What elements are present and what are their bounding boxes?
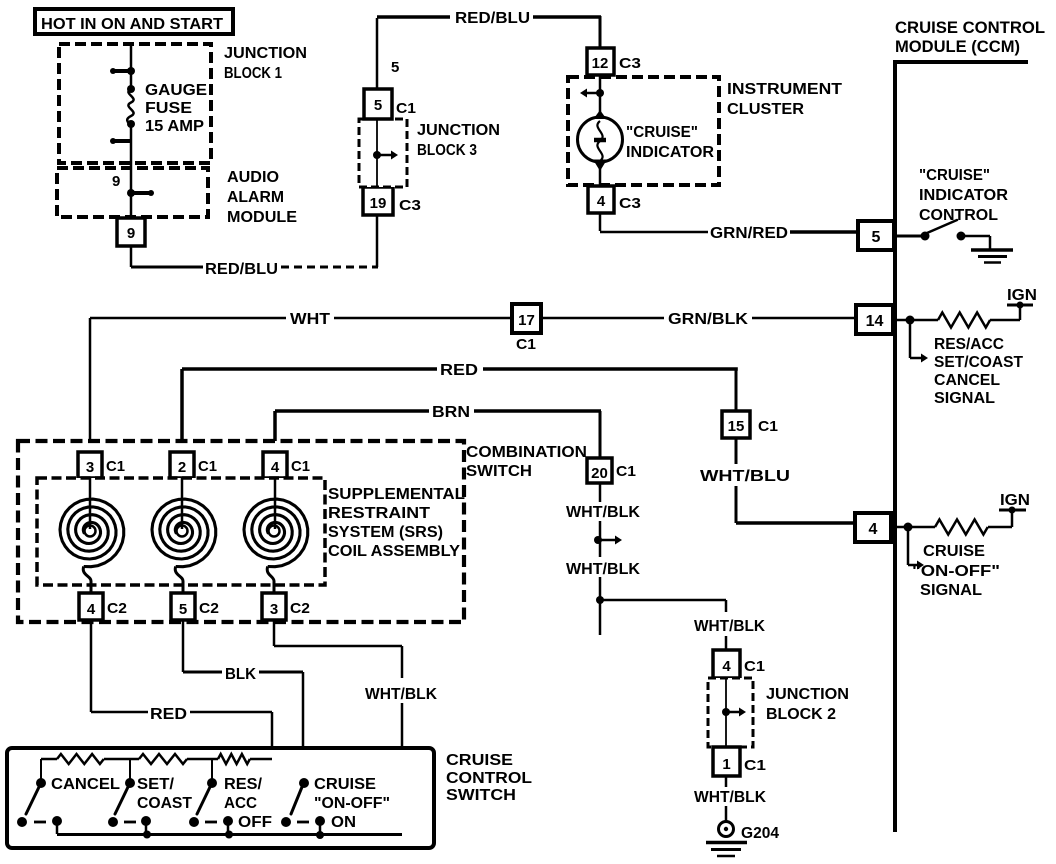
svg-text:MODULE (CCM): MODULE (CCM): [895, 37, 1020, 56]
connector pin 5 C2 box: [171, 593, 219, 620]
svg-text:FUSE: FUSE: [145, 100, 192, 117]
svg-text:BLOCK 2: BLOCK 2: [766, 706, 836, 723]
svg-text:C1: C1: [396, 100, 416, 117]
fuse F: GAUGE FUSE 15 AMP: [127, 82, 207, 135]
wire up from RED/BLU to pin 19: [376, 215, 379, 267]
svg-text:3: 3: [270, 601, 278, 618]
connector pin 4 C3 box: [588, 186, 641, 213]
CCM pin 14 box: [856, 305, 893, 334]
signal arrow CRUISE ON-OFF SIGNAL: [908, 527, 1000, 599]
wire resistor to IGN: [990, 319, 1020, 322]
svg-text:15 AMP: 15 AMP: [145, 118, 204, 135]
wire BLK from pin 5 C2 to cruise switch: [183, 620, 303, 779]
svg-text:GRN/BLK: GRN/BLK: [668, 311, 748, 328]
SRS clock spring coil 2: [152, 478, 216, 593]
svg-text:"CRUISE": "CRUISE": [919, 167, 990, 184]
svg-text:WHT/BLK: WHT/BLK: [365, 686, 437, 703]
svg-text:5: 5: [391, 59, 399, 76]
wire WHT/BLK lower: [566, 561, 640, 635]
svg-text:C3: C3: [399, 197, 421, 214]
svg-text:COAST: COAST: [137, 795, 192, 812]
svg-text:2: 2: [178, 459, 186, 476]
svg-text:5: 5: [374, 97, 382, 114]
wire RED from pin 4 C2 to cruise switch: [91, 620, 272, 759]
svg-text:WHT: WHT: [290, 311, 330, 328]
wire WHT/BLU to CCM pin 4: [700, 438, 855, 523]
svg-text:C3: C3: [619, 195, 641, 212]
node: branch to junction block 2: [596, 596, 604, 604]
connector pin 4 C1 box: [263, 452, 310, 478]
svg-text:INDICATOR: INDICATOR: [626, 144, 714, 161]
svg-text:C1: C1: [106, 458, 125, 475]
CCM pin 4 box: [855, 513, 891, 542]
svg-text:BLK: BLK: [225, 666, 256, 683]
wire internal junction block 3: [376, 119, 378, 187]
svg-text:BLOCK 1: BLOCK 1: [224, 65, 282, 82]
svg-text:C1: C1: [744, 757, 766, 774]
svg-text:CRUISE: CRUISE: [923, 543, 985, 560]
IGN feed at pin 4: [999, 492, 1030, 527]
CCM pin 5 box: [858, 221, 894, 250]
ground G204: [706, 822, 779, 857]
svg-text:WHT/BLU: WHT/BLU: [700, 468, 790, 485]
IGN feed at pin 14: [1007, 287, 1037, 320]
resistor R pullup ON-OFF: [935, 520, 988, 535]
svg-text:G204: G204: [741, 825, 779, 842]
node: cluster tap with left arrow: [580, 89, 604, 98]
svg-text:RES/: RES/: [224, 776, 263, 793]
svg-text:SIGNAL: SIGNAL: [934, 390, 995, 407]
svg-text:GAUGE: GAUGE: [145, 82, 207, 99]
SRS coil assembly (dashed box): [37, 478, 465, 585]
svg-text:1: 1: [722, 756, 730, 773]
node: pin 14 junction: [897, 316, 938, 325]
svg-text:12: 12: [592, 55, 609, 72]
wire WHT riser to pin 3: [89, 318, 92, 452]
header box HOT IN ON AND START: [35, 9, 233, 34]
svg-text:CANCEL: CANCEL: [51, 776, 120, 793]
junction block 1 (dashed box): [59, 44, 307, 163]
svg-text:C1: C1: [744, 658, 765, 675]
svg-text:INSTRUMENT: INSTRUMENT: [727, 81, 842, 98]
wire inside audio alarm module: [130, 168, 133, 218]
SRS clock spring coil 3: [244, 478, 308, 593]
svg-text:CANCEL: CANCEL: [934, 372, 1000, 389]
connector pin 3 C2 box: [262, 593, 310, 620]
svg-text:ACC: ACC: [224, 795, 257, 812]
wire RED/BLU top riser: [376, 18, 379, 89]
svg-text:COMBINATION: COMBINATION: [466, 444, 587, 461]
connector pin 1 C1 box: [713, 747, 766, 776]
svg-text:SWITCH: SWITCH: [446, 787, 516, 804]
svg-text:JUNCTION: JUNCTION: [224, 45, 307, 62]
switch: cruise indicator control contact: [897, 220, 966, 241]
svg-text:RED: RED: [150, 706, 187, 723]
connector pin 9 box: [117, 218, 145, 246]
svg-text:IGN: IGN: [1000, 492, 1030, 509]
svg-text:20: 20: [591, 465, 608, 482]
svg-text:AUDIO: AUDIO: [227, 169, 279, 186]
svg-text:19: 19: [370, 195, 387, 212]
svg-text:INDICATOR: INDICATOR: [919, 187, 1008, 204]
svg-text:14: 14: [866, 313, 884, 330]
svg-text:C2: C2: [107, 600, 127, 617]
wire branch right to junction block 2: [600, 600, 765, 650]
svg-text:"CRUISE": "CRUISE": [626, 124, 698, 141]
svg-text:C1: C1: [291, 458, 310, 475]
wire fuse output down through block: [130, 124, 133, 168]
svg-text:BRN: BRN: [432, 404, 470, 421]
connector pin 2 C1 box: [170, 452, 217, 478]
svg-text:C1: C1: [198, 458, 217, 475]
svg-text:3: 3: [86, 459, 94, 476]
svg-text:RED: RED: [440, 362, 478, 379]
svg-text:15: 15: [728, 418, 745, 435]
svg-text:BLOCK 3: BLOCK 3: [417, 142, 477, 159]
connector pin 20 C1 box: [587, 458, 636, 483]
audio alarm module (dashed box): [57, 168, 297, 226]
svg-text:ON: ON: [331, 814, 356, 831]
svg-text:WHT/BLK: WHT/BLK: [566, 561, 640, 578]
wire RED/BLU top run: [377, 10, 601, 27]
svg-text:RES/ACC: RES/ACC: [934, 336, 1004, 353]
connector pin 4 C1 box (junction block 2): [713, 650, 765, 678]
svg-text:C1: C1: [516, 336, 536, 353]
label CRUISE INDICATOR CONTROL: [919, 167, 1008, 224]
wire WHT/BLK from pin 3 C2 to cruise switch: [274, 620, 437, 835]
junction block 3 (dashed box): [359, 119, 500, 187]
node: tap stub below fuse: [110, 138, 131, 144]
svg-text:CONTROL: CONTROL: [446, 770, 532, 787]
resistor ladder bus in cruise switch: [41, 754, 272, 764]
svg-text:4: 4: [87, 601, 96, 618]
svg-text:ALARM: ALARM: [227, 189, 284, 206]
svg-text:SET/COAST: SET/COAST: [934, 354, 1023, 371]
svg-text:C2: C2: [199, 600, 219, 617]
junction block 2 (dashed box): [708, 678, 849, 747]
node: junction block 2 tap with arrow: [722, 708, 746, 717]
node: feed tap junction: [110, 67, 135, 75]
svg-text:CLUSTER: CLUSTER: [727, 101, 804, 118]
svg-text:MODULE: MODULE: [227, 209, 297, 226]
connector pin 3 C1 box: [78, 452, 125, 478]
svg-text:9: 9: [112, 173, 120, 190]
wire RED from pin 2 to connector 15: [182, 362, 738, 411]
svg-text:OFF: OFF: [238, 814, 272, 831]
ground (chassis) at indicator control: [961, 236, 1013, 263]
node: pin 4 junction: [891, 523, 935, 532]
svg-text:SIGNAL: SIGNAL: [920, 582, 982, 599]
connector pin 15 C1 box: [722, 411, 778, 438]
wire lamp to pin 4: [599, 168, 602, 186]
connector pin 17 C1 inline box: [512, 304, 541, 353]
svg-text:IGN: IGN: [1007, 287, 1037, 304]
svg-text:WHT/BLK: WHT/BLK: [694, 618, 765, 635]
wire GRN/RED to CCM pin 5: [600, 213, 858, 242]
signal arrow RES/ACC SET/COAST CANCEL SIGNAL: [910, 320, 1023, 407]
svg-text:C2: C2: [290, 600, 310, 617]
wire WHT/BLK below 20: [566, 483, 640, 557]
wire WHT from combination switch pin 3 to CCM pin 14: [90, 311, 512, 328]
connector pin 12 C3 box: [587, 48, 641, 75]
svg-text:GRN/RED: GRN/RED: [710, 225, 788, 242]
switch RES/ACC: [189, 759, 272, 831]
node: junction block 3 tap with arrow: [373, 151, 398, 160]
cruise control module (CCM) boundary: [893, 18, 1045, 832]
lamp CRUISE indicator bulb: [578, 110, 715, 171]
resistor R pullup RES/ACC: [938, 313, 990, 328]
wire pin 12 to lamp: [599, 75, 602, 112]
svg-text:4: 4: [271, 459, 280, 476]
connector pin 4 C2 box: [79, 593, 127, 620]
svg-text:C1: C1: [758, 418, 778, 435]
svg-text:RED/BLU: RED/BLU: [205, 261, 278, 278]
svg-text:CRUISE CONTROL: CRUISE CONTROL: [895, 18, 1045, 37]
svg-text:WHT/BLK: WHT/BLK: [694, 789, 766, 806]
svg-text:5: 5: [179, 601, 187, 618]
wire RED/BLU from pin 9: [131, 246, 278, 278]
node: audio alarm tap with stub: [127, 189, 154, 197]
svg-text:SWITCH: SWITCH: [466, 463, 532, 480]
svg-text:WHT/BLK: WHT/BLK: [566, 504, 640, 521]
svg-text:4: 4: [597, 193, 606, 210]
svg-text:CRUISE: CRUISE: [314, 776, 376, 793]
common return bus in cruise switch: [57, 821, 402, 839]
wire GRN/BLK: [541, 311, 856, 328]
connector pin 5 C1 box: [364, 89, 416, 119]
svg-text:4: 4: [869, 521, 878, 538]
node: WHT/BLK tap with arrow: [594, 536, 622, 545]
svg-text:"ON-OFF": "ON-OFF": [314, 795, 390, 812]
svg-text:SYSTEM (SRS): SYSTEM (SRS): [328, 524, 443, 541]
wire from hot feed into junction block 1: [130, 44, 133, 88]
svg-text:JUNCTION: JUNCTION: [417, 122, 500, 139]
svg-text:RESTRAINT: RESTRAINT: [328, 505, 430, 522]
wire RED/BLU dashed continuation to junction block 3: [281, 266, 378, 269]
switch CANCEL: [17, 759, 120, 827]
wire WHT/BLK to ground: [694, 776, 766, 821]
svg-text:SET/: SET/: [137, 776, 175, 793]
wire RED riser to pin 2: [180, 369, 184, 452]
wire BRN riser to pin 4: [273, 411, 277, 452]
wire down to instrument cluster pin 12: [599, 16, 602, 48]
svg-text:C3: C3: [619, 55, 641, 72]
svg-text:COIL ASSEMBLY: COIL ASSEMBLY: [328, 543, 460, 560]
svg-text:JUNCTION: JUNCTION: [766, 686, 849, 703]
svg-text:17: 17: [518, 312, 535, 329]
wire BRN from pin 4 to connector 20: [275, 404, 601, 458]
connector pin 19 C3 box: [363, 187, 421, 215]
SRS clock spring coil 1: [60, 478, 124, 593]
svg-text:4: 4: [722, 658, 731, 675]
switch CRUISE ON-OFF: [281, 776, 390, 831]
wire internal junction block 2: [725, 678, 727, 747]
cruise control switch (box): [7, 748, 532, 848]
svg-text:C1: C1: [616, 463, 636, 480]
svg-text:SUPPLEMENTAL: SUPPLEMENTAL: [328, 486, 465, 503]
svg-text:"ON-OFF": "ON-OFF": [912, 563, 1000, 580]
svg-text:CONTROL: CONTROL: [919, 207, 998, 224]
instrument cluster (dashed box): [568, 77, 842, 185]
wire resistor to IGN: [988, 526, 1012, 529]
svg-text:HOT IN ON AND START: HOT IN ON AND START: [41, 16, 223, 33]
svg-text:9: 9: [127, 225, 135, 242]
combination switch (dashed box): [18, 441, 587, 622]
svg-text:5: 5: [872, 229, 881, 246]
switch SET/COAST: [108, 759, 192, 827]
svg-text:CRUISE: CRUISE: [446, 752, 513, 769]
svg-text:RED/BLU: RED/BLU: [455, 10, 530, 27]
